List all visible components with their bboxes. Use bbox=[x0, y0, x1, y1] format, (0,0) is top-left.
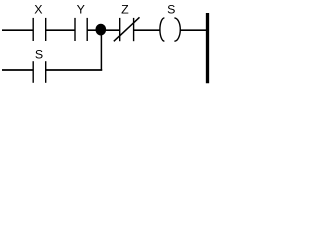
svg-text:Z: Z bbox=[121, 2, 129, 16]
svg-text:S: S bbox=[35, 47, 43, 61]
svg-text:Y: Y bbox=[77, 2, 85, 16]
svg-text:X: X bbox=[34, 2, 42, 16]
svg-text:S: S bbox=[167, 2, 175, 16]
